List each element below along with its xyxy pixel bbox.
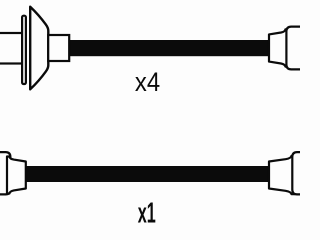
- svg-text:x4: x4: [135, 68, 160, 97]
- cable 2 left end cap (cut off at left edge): [0, 152, 10, 194]
- cable 1 boot nipple: [48, 35, 69, 61]
- cable 1 right end cap (cut off at right edge): [286, 27, 302, 70]
- cable 2 left collar: [7, 157, 26, 194]
- cable 1 right collar: [269, 29, 289, 67]
- svg-text:x1: x1: [138, 196, 156, 228]
- cable 1 flange washer plate: [22, 16, 26, 84]
- cable 2 (x1) black lead: [25, 166, 268, 182]
- cable 1 boot bell: [30, 7, 48, 90]
- cable 1 (x4) black lead: [69, 40, 269, 56]
- cable 1 distributor-end tube (cut off at left edge): [0, 33, 23, 64]
- cable 2 right collar: [269, 156, 295, 194]
- cable 2 right end cap (cut off at right edge): [292, 152, 302, 194]
